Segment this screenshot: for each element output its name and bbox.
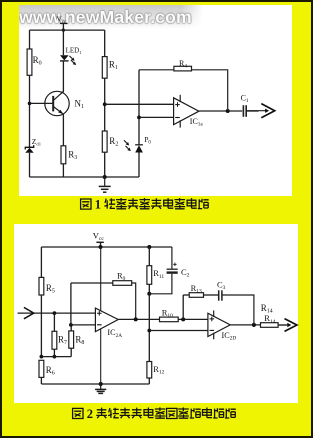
resistor R10 bbox=[160, 317, 179, 322]
resistor R13 bbox=[189, 293, 203, 298]
IC2A bottom power pin bbox=[100, 329, 102, 384]
resistor R7 lead bbox=[53, 313, 55, 331]
node IC2A output junction bbox=[134, 317, 138, 321]
wire photodiode branch top bbox=[138, 70, 140, 145]
svg-text:R7: R7 bbox=[58, 335, 67, 347]
resistor R7 bbox=[52, 331, 57, 349]
P0 incoming light arrow b bbox=[126, 146, 129, 149]
node minus input tee bbox=[137, 116, 141, 120]
wire base bbox=[30, 102, 54, 104]
wire minus input IC2D bbox=[149, 330, 208, 332]
svg-text:N1: N1 bbox=[75, 98, 85, 110]
capacitor C2 top plate bbox=[167, 268, 178, 270]
svg-text:IC1a: IC1a bbox=[190, 117, 204, 128]
node base tee bbox=[28, 102, 32, 106]
wire plus input fig1 bbox=[105, 103, 174, 105]
wire P0 to bottom rail bbox=[138, 153, 140, 178]
wire R12 rail corner bbox=[148, 383, 150, 385]
wire collector from rail to LED bbox=[62, 30, 64, 55]
caption figure 2 bbox=[73, 407, 236, 421]
wire emitter to R3 bbox=[62, 114, 64, 146]
wire left rail upper bbox=[29, 30, 31, 49]
svg-text:R4: R4 bbox=[179, 59, 187, 70]
wire top rail bbox=[30, 29, 105, 31]
figure 1 white panel bbox=[19, 5, 292, 196]
node output feedback junction fig1 bbox=[226, 109, 230, 113]
resistor R11 bbox=[147, 266, 152, 285]
capacitor C2 bottom lead bbox=[149, 274, 172, 294]
svg-text:R13: R13 bbox=[191, 283, 202, 295]
svg-text:R3: R3 bbox=[68, 150, 77, 162]
wire R6 to bottom rail bbox=[40, 377, 42, 384]
wire R11 top lead bbox=[148, 247, 150, 266]
svg-text:C2: C2 bbox=[181, 267, 190, 279]
wire LED to transistor collector bbox=[62, 61, 64, 92]
P0 incoming light arrow a bbox=[124, 140, 127, 143]
resistor R2 bbox=[102, 131, 107, 152]
resistor R5 bbox=[39, 277, 44, 295]
zener diode ZD1 bar bbox=[25, 145, 33, 149]
Vcc terminal bar fig2 bbox=[96, 241, 103, 243]
transistor N1 circle bbox=[45, 91, 69, 115]
wire R1 to junction bbox=[104, 78, 106, 131]
svg-text:R11: R11 bbox=[153, 268, 164, 280]
feedback wire to R13 bbox=[183, 294, 189, 296]
figure 2 white panel bbox=[14, 224, 299, 404]
input arrow fig2 bbox=[24, 307, 34, 318]
svg-text:Vcc: Vcc bbox=[93, 231, 105, 243]
wire R7 bottom bbox=[53, 349, 55, 356]
svg-text:C3: C3 bbox=[217, 279, 226, 291]
wire R7 R8 bottom bus bbox=[41, 356, 71, 358]
feedback left vertical fig2 bbox=[70, 283, 72, 325]
node R11 top junction bbox=[147, 245, 151, 249]
resistor R12 bbox=[147, 362, 152, 379]
watermark banner www.newMaker.com bbox=[19, 5, 203, 29]
resistor R4 bbox=[174, 66, 192, 71]
node IC2D output feedback junction bbox=[252, 323, 256, 327]
node R13 tap junction bbox=[181, 317, 185, 321]
feedback R9 to output bbox=[132, 283, 136, 319]
resistor R1 bbox=[102, 57, 107, 79]
feedback R13 C3 loop left vertical bbox=[182, 295, 184, 319]
caption figure 1 bbox=[81, 198, 209, 212]
ground symbol fig2 bbox=[100, 384, 102, 389]
svg-text:R12: R12 bbox=[153, 364, 164, 376]
LED LED1 cathode bar bbox=[60, 60, 69, 62]
resistor R0 bbox=[27, 49, 32, 75]
op-amp IC2A bbox=[95, 308, 118, 332]
wire top rail fig2 bbox=[41, 246, 172, 248]
wire output IC1a bbox=[199, 110, 242, 112]
capacitor C2 plus sign bbox=[173, 263, 176, 266]
svg-text:R9: R9 bbox=[117, 271, 126, 283]
capacitor C3 right plate bbox=[221, 290, 223, 300]
svg-text:P0: P0 bbox=[144, 135, 151, 146]
wire C1 to output arrow bbox=[246, 110, 258, 112]
wire R5 to input node bbox=[40, 295, 42, 357]
transistor N1 emitter arrowhead bbox=[58, 110, 63, 114]
wire bottom rail bbox=[30, 176, 140, 178]
feedback wire R4 loop bbox=[139, 70, 228, 111]
svg-text:R1: R1 bbox=[109, 60, 118, 72]
svg-text:R6: R6 bbox=[46, 365, 55, 377]
wire left rail middle bbox=[29, 75, 31, 147]
feedback C3 to output junction bbox=[222, 295, 254, 325]
capacitor C2 bottom plate bbox=[167, 271, 178, 273]
resistor R6 bbox=[39, 360, 44, 377]
photodiode P0 bar bbox=[135, 144, 143, 146]
wire R8 bottom bbox=[70, 348, 72, 356]
resistor R8 top lead bbox=[70, 325, 72, 331]
svg-text:R8: R8 bbox=[75, 335, 84, 347]
svg-text:1: 1 bbox=[95, 198, 101, 212]
Vcc terminal bar bbox=[60, 22, 68, 24]
wire R13 to C3 bbox=[204, 294, 219, 296]
node R7 bottom junction bbox=[53, 355, 57, 359]
wire R2 to bottom rail bbox=[104, 152, 106, 177]
LED1 emission arrow a bbox=[69, 56, 72, 59]
resistor R1 wire from top rail bbox=[104, 30, 106, 56]
output arrow fig2 bbox=[278, 324, 289, 326]
node R6 wire junction bbox=[40, 355, 44, 359]
node R1 R2 junction bbox=[103, 102, 107, 106]
svg-text:Zd1: Zd1 bbox=[32, 137, 42, 147]
zener diode ZD1 triangle bbox=[25, 148, 33, 153]
transistor N1 emitter diagonal bbox=[53, 106, 62, 113]
resistor R14 bbox=[261, 323, 279, 328]
wire left rail to R5 bbox=[40, 247, 42, 277]
LED1 emission arrow b bbox=[71, 60, 74, 63]
node R11 C2 bottom junction bbox=[147, 292, 151, 296]
wire zener to bottom rail bbox=[29, 153, 31, 177]
wire IC2A output bbox=[118, 318, 208, 320]
node ground junction fig2 bbox=[99, 382, 103, 386]
op-amp IC1a bbox=[174, 98, 199, 125]
input wire fig2 bbox=[18, 312, 96, 314]
IC2A top power pin bbox=[100, 247, 102, 311]
node Vcc junction on top rail bbox=[62, 29, 65, 32]
svg-text:R2: R2 bbox=[109, 136, 118, 148]
transistor N1 base bar bbox=[52, 96, 54, 112]
svg-text:IC2A: IC2A bbox=[107, 328, 122, 339]
wire bottom rail fig2 bbox=[41, 383, 148, 385]
capacitor C1 left plate bbox=[242, 105, 244, 117]
svg-text:2: 2 bbox=[87, 407, 93, 421]
node ground junction fig1 bbox=[103, 175, 107, 179]
node minus input IC2D junction bbox=[147, 329, 151, 333]
LED LED1 triangle bbox=[60, 55, 69, 60]
svg-text:R0: R0 bbox=[33, 55, 42, 67]
svg-text:IC2D: IC2D bbox=[222, 331, 237, 342]
svg-text:R5: R5 bbox=[46, 283, 55, 295]
transistor N1 collector diagonal bbox=[53, 91, 63, 100]
svg-text:C1: C1 bbox=[241, 94, 249, 105]
wire reference node vertical bbox=[148, 294, 150, 362]
wire Vcc stem to top rail bbox=[62, 23, 64, 30]
wire R3 to bottom rail bbox=[62, 164, 64, 177]
wire minus input fig1 bbox=[139, 116, 174, 118]
wire IC2D output bbox=[230, 324, 260, 326]
node minus input R8 feedback junction bbox=[69, 323, 73, 327]
op-amp IC2D bbox=[208, 313, 230, 336]
capacitor C3 left plate bbox=[218, 290, 220, 300]
wire Vcc stem fig2 bbox=[100, 242, 102, 247]
capacitor C2 top lead bbox=[171, 247, 173, 269]
svg-text:LED1: LED1 bbox=[66, 46, 83, 55]
svg-text:R10: R10 bbox=[162, 307, 173, 319]
output arrow fig1 bbox=[246, 110, 266, 112]
node Vcc junction bbox=[99, 245, 103, 249]
wire R14 to output arrow bbox=[278, 324, 287, 326]
wire minus input IC2A bbox=[71, 324, 96, 326]
wire R11 bottom lead bbox=[148, 284, 150, 294]
resistor R8 bbox=[69, 331, 74, 348]
capacitor C1 right plate bbox=[245, 105, 247, 117]
wire R12 to bottom rail bbox=[148, 378, 150, 384]
photodiode P0 triangle bbox=[135, 145, 143, 152]
resistor R3 bbox=[61, 146, 66, 164]
ground symbol fig1 bbox=[104, 177, 106, 186]
feedback top wire to R9 bbox=[71, 282, 113, 284]
resistor R9 bbox=[113, 281, 132, 286]
node R7 top junction bbox=[53, 311, 57, 315]
